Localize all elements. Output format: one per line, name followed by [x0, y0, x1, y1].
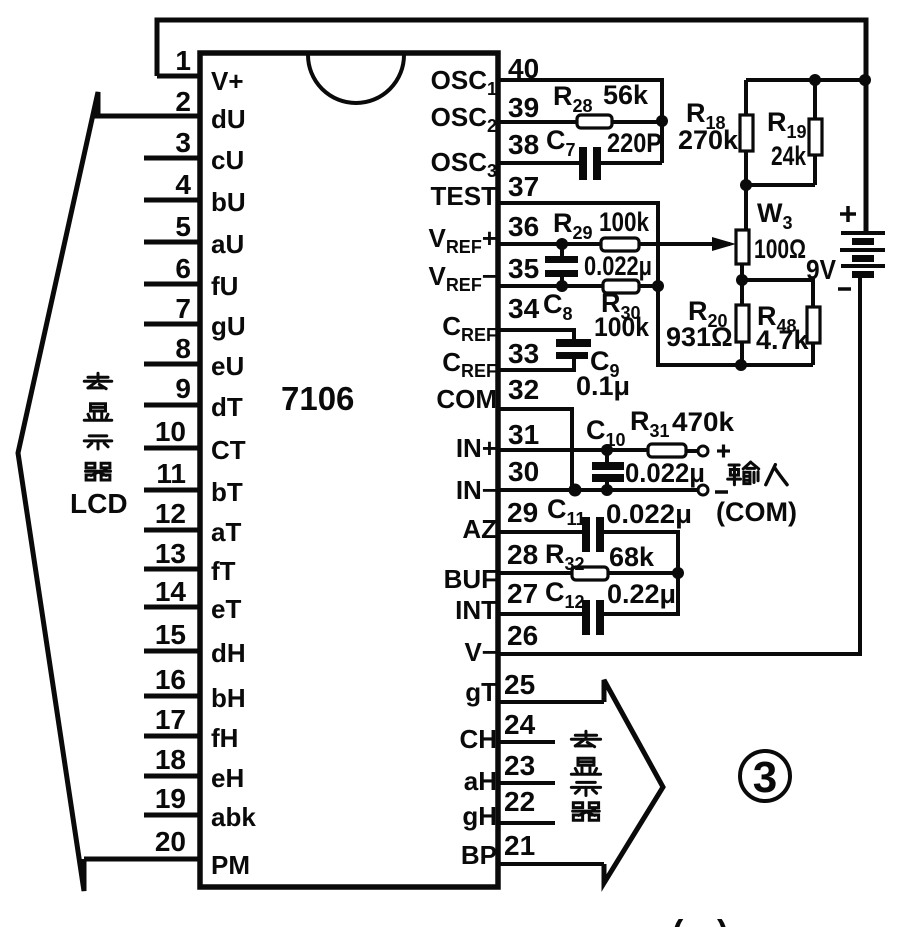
- svg-text:BP: BP: [461, 840, 497, 870]
- resistor R18: [740, 80, 753, 185]
- svg-text:7: 7: [175, 293, 191, 324]
- svg-text:INT: INT: [455, 595, 497, 625]
- svg-text:31: 31: [508, 419, 539, 450]
- W3 wiper arrowhead: [712, 237, 736, 251]
- wire C12 right: [604, 573, 678, 614]
- svg-text:IN+: IN+: [456, 433, 497, 463]
- node junction dot C10 bottom: [601, 484, 613, 496]
- svg-text:(COM): (COM): [716, 497, 797, 527]
- svg-text:bU: bU: [211, 187, 246, 217]
- svg-text:470k: 470k: [672, 407, 735, 437]
- svg-text:11: 11: [156, 458, 186, 489]
- svg-text:9: 9: [175, 373, 191, 404]
- node junction dot R32 right: [672, 567, 684, 579]
- svg-text:5: 5: [175, 211, 191, 242]
- wire R32 right: [608, 571, 678, 575]
- wire pin31 IN+: [498, 448, 648, 452]
- battery B1 9V: [840, 231, 885, 278]
- left pin stub wires 3-19: [144, 158, 200, 815]
- wire down to W3: [744, 185, 748, 230]
- svg-text:0.1μ: 0.1μ: [576, 371, 630, 401]
- svg-text:3: 3: [753, 753, 777, 802]
- svg-text:24: 24: [504, 709, 536, 740]
- svg-text:18: 18: [155, 744, 186, 775]
- node junction dot R18 bottom: [740, 179, 752, 191]
- svg-text:35: 35: [508, 253, 539, 284]
- wire W3 bottom to R48 top: [742, 280, 813, 307]
- capacitor C9: [556, 339, 591, 359]
- resistor R19: [809, 80, 822, 185]
- resistor R28: [577, 115, 612, 128]
- svg-text:dU: dU: [211, 104, 246, 134]
- capacitor C7: [579, 147, 601, 180]
- label battery plus: [840, 206, 856, 222]
- svg-text:abk: abk: [211, 802, 256, 832]
- svg-text:32: 32: [508, 374, 539, 405]
- svg-text:dT: dT: [211, 392, 243, 422]
- svg-text:9V: 9V: [806, 254, 836, 285]
- terminal minus input: [698, 485, 708, 495]
- resistor R32: [572, 567, 608, 580]
- svg-text:39: 39: [508, 92, 539, 123]
- label minus: [715, 490, 728, 494]
- svg-text:3: 3: [175, 127, 191, 158]
- wire pin34 CREF: [498, 330, 574, 340]
- display arrow outline right: [604, 680, 663, 883]
- wire R30 right: [639, 284, 658, 288]
- svg-text:100k: 100k: [594, 312, 650, 342]
- node junction dot R19 top: [809, 74, 821, 86]
- wire pin39 OSC2: [498, 120, 577, 124]
- wire top border V+ rail: [157, 20, 866, 232]
- wire pin23 aH: [498, 781, 555, 785]
- left pin labels inside IC: [211, 66, 256, 880]
- svg-text:0.022μ: 0.022μ: [584, 251, 652, 281]
- svg-text:68k: 68k: [609, 542, 655, 572]
- node LCD text 去显示器: [84, 373, 112, 388]
- svg-text:): ): [717, 914, 728, 927]
- wire R18 R19 bottom rail: [746, 183, 815, 187]
- svg-text:27: 27: [507, 578, 538, 609]
- svg-text:100Ω: 100Ω: [754, 234, 806, 264]
- svg-text:270k: 270k: [678, 125, 739, 155]
- svg-text:fT: fT: [211, 556, 236, 586]
- svg-text:22: 22: [504, 786, 535, 817]
- svg-text:4: 4: [175, 169, 191, 200]
- svg-text:0.022μ: 0.022μ: [606, 499, 692, 529]
- svg-text:V−: V−: [464, 637, 497, 667]
- svg-text:16: 16: [155, 664, 186, 695]
- resistor R20: [736, 280, 749, 365]
- IC U1 7106 body: [200, 53, 498, 887]
- right pin labels inside IC: [428, 65, 497, 870]
- right pin numbers 40-21: [504, 53, 540, 861]
- svg-text:IN−: IN−: [456, 475, 497, 505]
- svg-text:aU: aU: [211, 229, 244, 259]
- node junction dot COM-IN-: [569, 484, 582, 497]
- wire pin22 gH: [498, 821, 555, 825]
- wire pin2 dU to LCD arrow: [94, 114, 200, 119]
- left pin numbers 1-20: [155, 45, 192, 857]
- svg-text:56k: 56k: [603, 80, 649, 110]
- svg-text:2: 2: [175, 86, 191, 117]
- capacitor C11: [582, 517, 604, 552]
- resistor R29: [601, 238, 639, 251]
- svg-text:fU: fU: [211, 271, 238, 301]
- svg-text:37: 37: [508, 171, 539, 202]
- svg-text:19: 19: [155, 783, 186, 814]
- wire pin37 TEST down to divider bottom: [498, 203, 813, 365]
- wire R18 R19 top rail: [746, 78, 866, 82]
- svg-text:34: 34: [508, 293, 540, 324]
- svg-text:38: 38: [508, 129, 539, 160]
- svg-text:8: 8: [175, 333, 191, 364]
- node junction dot R30 right: [652, 280, 664, 292]
- wire pin28 BUF: [498, 571, 572, 575]
- svg-text:bT: bT: [211, 477, 243, 507]
- svg-text:21: 21: [504, 830, 535, 861]
- node circled 3: [740, 751, 790, 802]
- svg-text:28: 28: [507, 539, 538, 570]
- svg-text:bH: bH: [211, 683, 246, 713]
- node junction dot C8 top: [556, 238, 568, 250]
- wire pin24 CH: [498, 740, 555, 744]
- svg-text:100k: 100k: [599, 207, 650, 237]
- svg-text:20: 20: [155, 826, 186, 857]
- svg-text:7106: 7106: [281, 380, 354, 417]
- wire R28 right: [612, 120, 662, 124]
- svg-text:23: 23: [504, 750, 535, 781]
- label battery minus: [838, 287, 851, 291]
- svg-text:gU: gU: [211, 311, 246, 341]
- svg-text:dH: dH: [211, 638, 246, 668]
- wire C11 right: [604, 532, 678, 573]
- svg-text:gT: gT: [465, 677, 497, 707]
- wire pin30 IN-: [498, 488, 698, 492]
- svg-text:eH: eH: [211, 763, 244, 793]
- svg-text:6: 6: [175, 253, 191, 284]
- LCD display arrow outline: [18, 92, 98, 891]
- node junction dot C8 bottom: [556, 280, 568, 292]
- svg-text:(: (: [672, 914, 684, 927]
- svg-text:gH: gH: [462, 801, 497, 831]
- node junction dot C10 top: [601, 444, 613, 456]
- svg-text:COM: COM: [436, 384, 497, 414]
- node junction dot R28 right: [656, 115, 668, 127]
- wire pin35 VREF-: [498, 284, 603, 288]
- svg-text:25: 25: [504, 669, 535, 700]
- svg-text:TEST: TEST: [431, 181, 498, 211]
- capacitor C10: [592, 450, 624, 490]
- label input 输入: [728, 462, 759, 485]
- svg-text:30: 30: [508, 456, 539, 487]
- node junction dot divider bottom: [735, 359, 747, 371]
- svg-text:220P: 220P: [607, 128, 662, 158]
- svg-text:36: 36: [508, 211, 539, 242]
- svg-text:aH: aH: [464, 766, 497, 796]
- svg-text:14: 14: [155, 576, 187, 607]
- svg-text:LCD: LCD: [70, 488, 128, 519]
- svg-text:AZ: AZ: [462, 514, 497, 544]
- wire C7 right: [601, 161, 662, 165]
- node junction dot W3 bottom: [736, 274, 748, 286]
- resistor R30: [603, 280, 639, 293]
- svg-text:12: 12: [155, 498, 186, 529]
- wire pin1 V+: [157, 74, 200, 79]
- svg-text:0.022μ: 0.022μ: [625, 458, 705, 488]
- svg-text:CT: CT: [211, 435, 246, 465]
- wire pin20 PM to LCD arrow: [84, 857, 200, 862]
- node display text 去显示器 right: [571, 731, 600, 746]
- wire pin26 V- to battery negative: [498, 277, 860, 654]
- wire pin36 VREF+ to W3 wiper: [498, 242, 730, 246]
- wire R31 right: [686, 449, 698, 453]
- svg-text:PM: PM: [211, 850, 250, 880]
- resistor R31: [648, 444, 686, 457]
- svg-text:CH: CH: [459, 724, 497, 754]
- svg-text:931Ω: 931Ω: [666, 322, 733, 352]
- wire pin40 OSC1: [498, 80, 662, 163]
- svg-text:0.22μ: 0.22μ: [607, 579, 676, 609]
- svg-text:V+: V+: [211, 66, 244, 96]
- node junction dot battery top rail: [859, 74, 871, 86]
- terminal plus input: [698, 446, 708, 456]
- svg-text:aT: aT: [211, 517, 241, 547]
- svg-text:4.7k: 4.7k: [756, 325, 810, 355]
- resistor R48: [807, 307, 820, 365]
- wire pin32 COM down to IN-: [498, 409, 572, 490]
- wire pin21 BP: [498, 862, 604, 866]
- wire pin27 INT: [498, 612, 582, 616]
- svg-text:fH: fH: [211, 723, 238, 753]
- IC notch: [308, 55, 404, 103]
- wire pin25 gT: [498, 700, 604, 704]
- svg-text:10: 10: [155, 416, 186, 447]
- svg-text:15: 15: [155, 619, 186, 650]
- svg-text:cU: cU: [211, 145, 244, 175]
- svg-text:13: 13: [155, 538, 186, 569]
- capacitor C12: [582, 600, 604, 635]
- svg-text:17: 17: [155, 704, 186, 735]
- svg-text:33: 33: [508, 338, 539, 369]
- potentiometer W3: [736, 230, 749, 280]
- svg-text:24k: 24k: [771, 141, 807, 171]
- capacitor C8: [545, 244, 578, 286]
- wire pin29 AZ: [498, 530, 582, 534]
- wire pin38 OSC3: [498, 161, 580, 165]
- svg-text:1: 1: [175, 45, 191, 76]
- svg-text:eT: eT: [211, 594, 241, 624]
- svg-text:26: 26: [507, 620, 538, 651]
- svg-text:BUF: BUF: [444, 564, 497, 594]
- svg-text:eU: eU: [211, 351, 244, 381]
- svg-text:29: 29: [507, 497, 538, 528]
- wire pin33 CREF: [498, 359, 574, 370]
- label plus: [717, 445, 730, 458]
